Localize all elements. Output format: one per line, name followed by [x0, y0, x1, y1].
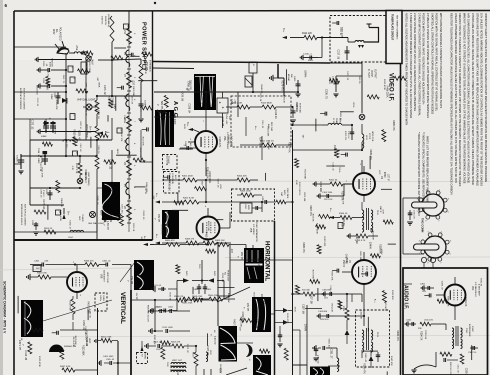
resistor R104 1K [329, 208, 364, 220]
svg-text:C385 .29: C385 .29 [110, 182, 113, 192]
svg-text:R274 68K: R274 68K [303, 193, 305, 203]
svg-text:40MF: 40MF [13, 157, 15, 163]
pilot lamp I202 [83, 104, 96, 110]
capacitor C116b [345, 46, 350, 60]
diode selenium D201 [62, 98, 67, 104]
wire rows vert mid [60, 322, 98, 330]
tube V8A pins [73, 262, 82, 299]
svg-text:115V: 115V [52, 29, 55, 35]
svg-text:R460 2K: R460 2K [205, 232, 208, 242]
diode D302 [345, 326, 350, 344]
tuner plate label box [386, 11, 402, 64]
capacitor C207 [115, 204, 122, 220]
svg-text:TRAP: TRAP [335, 118, 338, 124]
svg-text:R204 1K: R204 1K [44, 228, 53, 230]
svg-text:R122 470K: R122 470K [165, 154, 167, 165]
svg-text:+: + [219, 101, 221, 105]
svg-text:C208 .73: C208 .73 [325, 89, 328, 99]
svg-text:2 LINE VOLTAGE MAINTAINED AT: 2 LINE VOLTAGE MAINTAINED AT 120V AC. AL… [413, 13, 417, 111]
svg-text:C300: C300 [420, 284, 426, 286]
svg-text:R387 47K: R387 47K [153, 335, 155, 345]
phase splitter texts [295, 180, 300, 195]
svg-text:1H: 1H [213, 330, 215, 333]
resistor R202 2.2K [75, 156, 82, 175]
svg-text:C459 .88: C459 .88 [54, 126, 56, 135]
resistor R409 10K [215, 240, 246, 247]
capacitor C205 [42, 189, 53, 200]
svg-text:R103 10K: R103 10K [253, 293, 255, 303]
resistor R31 33K [291, 290, 325, 297]
svg-text:-140V: -140V [116, 148, 118, 154]
svg-text:C281 .27: C281 .27 [69, 220, 71, 230]
resistor R510 vert [192, 346, 199, 375]
svg-text:R463 270K: R463 270K [69, 300, 71, 311]
svg-text:L300 10%: L300 10% [424, 320, 433, 322]
svg-text:INTERSTAGE: INTERSTAGE [468, 324, 471, 337]
svg-text:C467 .41: C467 .41 [79, 121, 81, 130]
svg-text:C481 .72: C481 .72 [62, 75, 64, 84]
svg-text:R395 47K: R395 47K [392, 120, 395, 131]
svg-text:R427 2K: R427 2K [144, 66, 146, 74]
tube V6A pins [436, 277, 455, 312]
svg-text:HORIZONTAL: HORIZONTAL [264, 241, 271, 281]
svg-text:R274 68K: R274 68K [311, 270, 313, 280]
svg-text:R401 430K: R401 430K [182, 176, 193, 178]
svg-text:R171 2K: R171 2K [340, 191, 343, 201]
svg-text:C205: C205 [45, 189, 47, 195]
svg-text:SYNC SEPARATOR: SYNC SEPARATOR [255, 222, 258, 242]
svg-text:R274 68K: R274 68K [304, 169, 306, 179]
svg-text:ANY GUARANTEED WITH FACILITIES: ANY GUARANTEED WITH FACILITIES. ALL CAPA… [467, 13, 471, 184]
label VHF DIAL LIGHT [77, 99, 96, 102]
svg-text:C103 800: C103 800 [318, 311, 328, 313]
choke L203 [63, 140, 77, 148]
electrolytic C16 box [217, 98, 236, 113]
svg-text:C183 .60: C183 .60 [84, 326, 86, 335]
tube V5B pins [205, 206, 230, 245]
wire agc line [238, 91, 299, 93]
wire socket leads [403, 198, 424, 254]
svg-text:C450 .42: C450 .42 [328, 339, 330, 349]
svg-text:R395 47K: R395 47K [369, 149, 372, 160]
row y346 parts [145, 342, 197, 352]
svg-text:R402 8.2M: R402 8.2M [183, 198, 194, 200]
wire sync out [230, 202, 262, 228]
resistor R103 4.7K [347, 233, 378, 241]
svg-text:R123 47K: R123 47K [72, 337, 74, 347]
svg-text:R294 2K: R294 2K [50, 58, 52, 67]
svg-text:45V PP: 45V PP [157, 214, 160, 223]
capacitor CH1 [277, 332, 282, 347]
svg-text:C183 .60: C183 .60 [142, 211, 144, 221]
svg-text:C187 .69: C187 .69 [302, 304, 305, 314]
svg-text:3 TAKEN WITH CONTRAST CONTROL: 3 TAKEN WITH CONTRAST CONTROL AT MINIMUM… [417, 13, 421, 116]
svg-text:60~: 60~ [55, 29, 58, 34]
resistor R501 470K [182, 297, 209, 305]
svg-text:C515 .0035: C515 .0035 [162, 327, 174, 329]
svg-text:HORIZ: HORIZ [144, 353, 146, 360]
wire ps extra rows [14, 47, 153, 232]
svg-text:C429 .59: C429 .59 [97, 145, 99, 154]
svg-text:R219 1K: R219 1K [35, 87, 37, 95]
resistor R106 [342, 302, 349, 326]
svg-text:90V PP: 90V PP [240, 252, 243, 261]
phase det frame wires [177, 279, 224, 310]
wire row 188 [30, 187, 81, 189]
svg-text:C187 .69: C187 .69 [257, 258, 260, 268]
label 140V [113, 104, 118, 154]
diode D402 [208, 271, 215, 283]
row y311 caps [149, 307, 190, 314]
svg-text:400V: 400V [49, 62, 51, 68]
IF transformer T103 [362, 328, 378, 352]
to tuner dashed box [164, 172, 180, 194]
svg-text:C411 .82: C411 .82 [221, 117, 224, 127]
wire diagonal bottom [226, 368, 247, 375]
svg-text:C467 .41: C467 .41 [344, 254, 347, 264]
svg-text:R147 47K: R147 47K [120, 133, 122, 143]
filler horizontal parts [284, 285, 399, 375]
svg-text:R123 47K: R123 47K [218, 137, 221, 148]
svg-text:C459 .88: C459 .88 [95, 102, 98, 112]
svg-text:C237 .09: C237 .09 [109, 212, 112, 222]
svg-text:56 MYLAR: 56 MYLAR [299, 103, 302, 113]
svg-text:C281 .27: C281 .27 [329, 349, 332, 359]
svg-text:MODEL BW05 & BW10: MODEL BW05 & BW10 [20, 204, 22, 226]
waveform scope W1 280V PP [185, 74, 216, 110]
svg-text:VERT OSC.: VERT OSC. [106, 272, 108, 284]
svg-text:C461: C461 [34, 261, 40, 263]
terminal box 2 [70, 77, 75, 83]
svg-text:-34V: -34V [152, 195, 154, 200]
wire diag phasedet [217, 287, 250, 302]
svg-text:POINT: POINT [370, 70, 372, 78]
wire c116 [336, 75, 362, 77]
if test point text [367, 69, 375, 79]
electrolytic C202 [50, 92, 61, 104]
resistor chain R60 divider [95, 95, 99, 188]
waveform scope W8 22V PP [243, 297, 272, 332]
svg-text:C385 .29: C385 .29 [40, 189, 42, 198]
waveform scope W2 [155, 101, 174, 147]
svg-text:LINE: LINE [75, 45, 78, 51]
coil L310 [313, 345, 339, 371]
capacitor C502 1 [152, 307, 177, 314]
svg-text:1/2 6BL8/6HL8: 1/2 6BL8/6HL8 [474, 282, 476, 297]
svg-text:R401 68K: R401 68K [266, 127, 268, 137]
svg-text:R501 470K: R501 470K [182, 303, 193, 305]
svg-text:R293 2K: R293 2K [480, 278, 482, 286]
fuse lamp I201 [86, 56, 91, 61]
resistor R301 [418, 320, 438, 331]
capacitor C306 [322, 290, 347, 300]
svg-text:V5B: V5B [249, 228, 251, 233]
int caps [240, 203, 262, 213]
svg-text:WHEN IF TOLERANCE IS NOT STATE: WHEN IF TOLERANCE IS NOT STATED IT IS AS… [462, 13, 466, 184]
capacitor C310 [405, 320, 416, 327]
wire x118 [117, 341, 119, 375]
svg-text:R123 47K: R123 47K [288, 142, 291, 153]
svg-text:CAP: CAP [280, 192, 283, 197]
right column divider line [400, 64, 402, 375]
outer border left [13, 11, 15, 375]
svg-text:1ST IF: 1ST IF [386, 174, 388, 181]
resistor R500 470K [208, 295, 235, 301]
wire plug to line [69, 52, 75, 54]
wire row 131 [37, 129, 96, 134]
svg-text:C302 5%: C302 5% [468, 352, 476, 354]
svg-text:C429 .59: C429 .59 [97, 110, 99, 120]
socket pin circles [421, 257, 435, 268]
svg-text:CITORS ARE 20% ABOVE DC. DECIM: CITORS ARE 20% ABOVE DC. DECIMAL VALUES … [471, 13, 475, 185]
svg-text:20W 5%: 20W 5% [101, 16, 103, 24]
capacitor C206 [31, 220, 39, 235]
terminal box 1 [68, 66, 73, 72]
svg-text:R505 68K 1W 10%: R505 68K 1W 10% [147, 305, 149, 322]
svg-text:12N 10%: 12N 10% [320, 319, 329, 321]
svg-text:R421 100K: R421 100K [173, 113, 176, 125]
svg-text:C495 .38: C495 .38 [186, 81, 189, 91]
wire long vertical net [292, 130, 294, 375]
svg-text:10%: 10% [324, 298, 328, 300]
capacitor C30b [322, 293, 332, 295]
svg-text:100V: 100V [156, 349, 161, 351]
diode DH1 [277, 308, 293, 313]
resistor R408 680K [253, 103, 294, 110]
fold creases [0, 181, 490, 337]
svg-text:C450 +452: C450 +452 [225, 114, 227, 125]
svg-text:1 MEG: 1 MEG [102, 295, 104, 302]
svg-text:POSITION WITH NO SIGNAL INPUT.: POSITION WITH NO SIGNAL INPUT. VOLTAGES … [422, 13, 426, 105]
resistor R465 6.8K [27, 273, 67, 281]
svg-text:SCHEMATIC DIAGRAM - WT5 & V: SCHEMATIC DIAGRAM - WT5 & V [3, 281, 7, 334]
svg-text:400V: 400V [308, 60, 314, 62]
wire row 205 [30, 204, 64, 206]
tube V5A AGC amp [195, 131, 232, 153]
svg-text:MYLAR: MYLAR [287, 74, 290, 82]
svg-text:R147 47K: R147 47K [142, 137, 144, 147]
svg-text:IF. TEST: IF. TEST [367, 69, 369, 78]
filler if mid parts [302, 189, 396, 301]
svg-text:R466 220K: R466 220K [385, 86, 388, 98]
tube V4 2nd IF [342, 258, 376, 284]
choke L204 [68, 230, 84, 239]
svg-text:R395 47K: R395 47K [84, 169, 87, 180]
svg-text:4.5MC: 4.5MC [471, 326, 473, 332]
waveform scope W7 90V PP [237, 248, 265, 283]
svg-text:R446 2K: R446 2K [274, 109, 277, 119]
svg-text:R421 100K: R421 100K [59, 210, 61, 221]
svg-text:5%%: 5%% [294, 307, 296, 312]
svg-text:C183 .48: C183 .48 [78, 130, 81, 140]
wire row A [46, 263, 132, 265]
resistor R401 12M [240, 141, 293, 148]
svg-text:POLARIZED: POLARIZED [58, 27, 61, 41]
svg-text:R302 1K 10%: R302 1K 10% [449, 362, 451, 375]
terminal box 35 [56, 210, 61, 215]
svg-text:SILICON: SILICON [257, 300, 259, 309]
footer SCHEMATIC DIAGRAM [3, 281, 7, 334]
filler video if parts [259, 69, 407, 192]
svg-text:1 TAKEN FROM POINT INDICATED: 1 TAKEN FROM POINT INDICATED TO CHASSIS … [409, 13, 413, 118]
svg-text:AUDIO I.F.: AUDIO I.F. [403, 285, 409, 310]
svg-text:R283 100K: R283 100K [206, 167, 209, 179]
svg-text:WITH ANTENNA TERMINALS SHORTED: WITH ANTENNA TERMINALS SHORTED TO CHASSI… [439, 13, 443, 108]
tube V3 1st IF [353, 172, 388, 195]
svg-text:C140 .30: C140 .30 [332, 162, 334, 171]
filler power supply parts [31, 48, 158, 232]
wire v4 bottom [334, 292, 365, 326]
svg-text:56K: 56K [290, 74, 292, 78]
svg-text:C450 .42: C450 .42 [364, 353, 366, 363]
svg-text:SYNC RES: SYNC RES [286, 188, 288, 199]
svg-text:R171 2K: R171 2K [259, 93, 261, 101]
dashed agc box [231, 96, 291, 147]
wire agc down [205, 180, 207, 203]
tuner dashed box [330, 16, 386, 63]
svg-text:NOTES: ALL VOLTAGE MEASUREMENT: NOTES: ALL VOLTAGE MEASUREMENTS TAKEN FR… [405, 13, 409, 125]
capacitor C204 bank [138, 96, 145, 122]
thick line x131 [130, 290, 132, 375]
svg-text:C183 .60: C183 .60 [47, 68, 49, 77]
wire x155 [154, 300, 156, 331]
vert hold pot [49, 338, 90, 352]
diode D202 [44, 121, 49, 126]
video if section top line [153, 62, 331, 64]
svg-text:N.P.O. 5%: N.P.O. 5% [344, 131, 346, 140]
label C463 [103, 356, 114, 358]
wire left col [29, 140, 31, 205]
svg-text:C427 .89: C427 .89 [309, 294, 312, 304]
label TNG CONN [421, 218, 425, 232]
B plus arrow agc [183, 122, 199, 132]
resistor R402b [226, 103, 253, 110]
svg-text:OUTPUT: OUTPUT [373, 69, 375, 79]
svg-text:C217 .05: C217 .05 [216, 179, 218, 189]
resistor horiz 202 [262, 200, 294, 204]
svg-text:R457 220K: R457 220K [232, 319, 235, 331]
tube V4 pins [342, 252, 364, 292]
svg-text:C473 .32: C473 .32 [186, 344, 188, 354]
svg-text:R387 47K: R387 47K [309, 205, 312, 216]
wire mid col [97, 118, 112, 240]
resistor R406 100K [237, 191, 262, 198]
svg-text:R400 2.2M: R400 2.2M [231, 103, 242, 105]
svg-text:C425 .47: C425 .47 [441, 281, 443, 291]
sync res cap text [280, 188, 288, 199]
wire row 162 [21, 140, 98, 157]
svg-text:10%%: 10%% [304, 324, 307, 332]
svg-text:B++: B++ [186, 122, 188, 127]
svg-text:R409 10K: R409 10K [215, 240, 225, 242]
svg-text:C200C: C200C [16, 155, 18, 162]
svg-text:R401 68K: R401 68K [132, 86, 134, 96]
to horiz dashed box [137, 341, 148, 364]
svg-text:R446 2K: R446 2K [260, 85, 262, 94]
capacitor C116 [328, 76, 339, 97]
svg-text:C110 12: C110 12 [347, 131, 349, 139]
svg-text:C208 .73: C208 .73 [201, 95, 204, 105]
svg-text:R152 2K: R152 2K [168, 293, 170, 301]
svg-text:NOT IN FULL CHASSIS: NOT IN FULL CHASSIS [24, 204, 27, 226]
svg-text:R283 100K: R283 100K [145, 182, 147, 193]
capacitor C460 .02 [99, 261, 111, 267]
wire agc upper line [153, 67, 195, 70]
svg-text:C116a .1: C116a .1 [303, 54, 312, 56]
svg-text:C187 .69: C187 .69 [36, 98, 38, 107]
resistor R60B fusible [101, 14, 115, 42]
svg-text:R400 47K: R400 47K [165, 240, 175, 242]
svg-text:CERAMIC 500V DC. TOLERANCE & C: CERAMIC 500V DC. TOLERANCE & CAPACITY AS… [458, 13, 462, 187]
audio bottom parts [444, 354, 464, 375]
svg-text:B++: B++ [67, 211, 70, 216]
label VIDEO IF [388, 73, 394, 102]
svg-text:140V: 140V [183, 124, 185, 129]
capacitor C461 .033 [30, 261, 49, 272]
svg-text:C171 .32: C171 .32 [346, 71, 348, 81]
svg-text:C460a: C460a [99, 295, 101, 302]
terminal box 2b [70, 114, 75, 120]
wire network misc [150, 62, 412, 375]
svg-text:L237: L237 [132, 80, 135, 86]
svg-text:15V PP: 15V PP [130, 276, 133, 285]
svg-text:R60B 5%: R60B 5% [104, 16, 106, 25]
label unfiltered B [86, 124, 92, 138]
svg-text:30MF: 30MF [50, 94, 52, 100]
label uhf tuner [78, 214, 83, 222]
audio if box [403, 268, 488, 375]
B plus arrows mid [97, 131, 110, 135]
svg-text:C400: C400 [293, 76, 295, 82]
moon crescent control [246, 344, 253, 357]
svg-text:4.7K: 4.7K [85, 82, 87, 87]
svg-text:R294 2K: R294 2K [20, 333, 22, 341]
svg-text:R274 68K: R274 68K [259, 137, 262, 148]
capacitor C31 [313, 346, 318, 361]
svg-text:PHASE DET: PHASE DET [227, 270, 230, 282]
filler tuner parts [332, 21, 343, 60]
waveform scope W5 105V PP [18, 300, 43, 351]
socket TNG CONN lower [414, 231, 452, 264]
B plus arrow ps [62, 208, 69, 219]
svg-text:UHF: UHF [78, 216, 80, 221]
svg-text:C493 .08: C493 .08 [130, 96, 132, 105]
power supply box right edge [152, 11, 154, 240]
capacitor C315 [407, 210, 414, 225]
capacitor C103 1200 [317, 311, 334, 321]
svg-text:10%%: 10%% [352, 102, 354, 108]
label POWER SUPPLY [141, 22, 147, 71]
svg-text:VHF DIAL LIGHT: VHF DIAL LIGHT [77, 99, 96, 102]
power supply box bottom edge [14, 239, 153, 241]
svg-text:C204: C204 [144, 100, 146, 106]
svg-text:BOTTOM OF PRINTED: BOTTOM OF PRINTED [19, 88, 21, 110]
svg-text:R465 6.8K: R465 6.8K [37, 273, 47, 275]
svg-text:AG 10K: AG 10K [189, 143, 192, 151]
svg-text:L10K: L10K [295, 180, 297, 185]
svg-text:GRID COIL: GRID COIL [371, 131, 373, 142]
svg-text:C187 .69: C187 .69 [329, 285, 331, 294]
svg-text:C208 .84: C208 .84 [221, 273, 223, 283]
capacitor C465 pair [193, 284, 212, 294]
svg-text:680K: 680K [98, 82, 100, 88]
svg-text:R123 47K: R123 47K [391, 290, 393, 300]
svg-text:4BZ6: 4BZ6 [383, 172, 385, 178]
svg-text:10%%: 10%% [368, 242, 371, 250]
svg-text:C495 .38: C495 .38 [96, 196, 98, 206]
svg-text:R401 68K: R401 68K [359, 251, 361, 261]
audio wires [411, 312, 455, 373]
